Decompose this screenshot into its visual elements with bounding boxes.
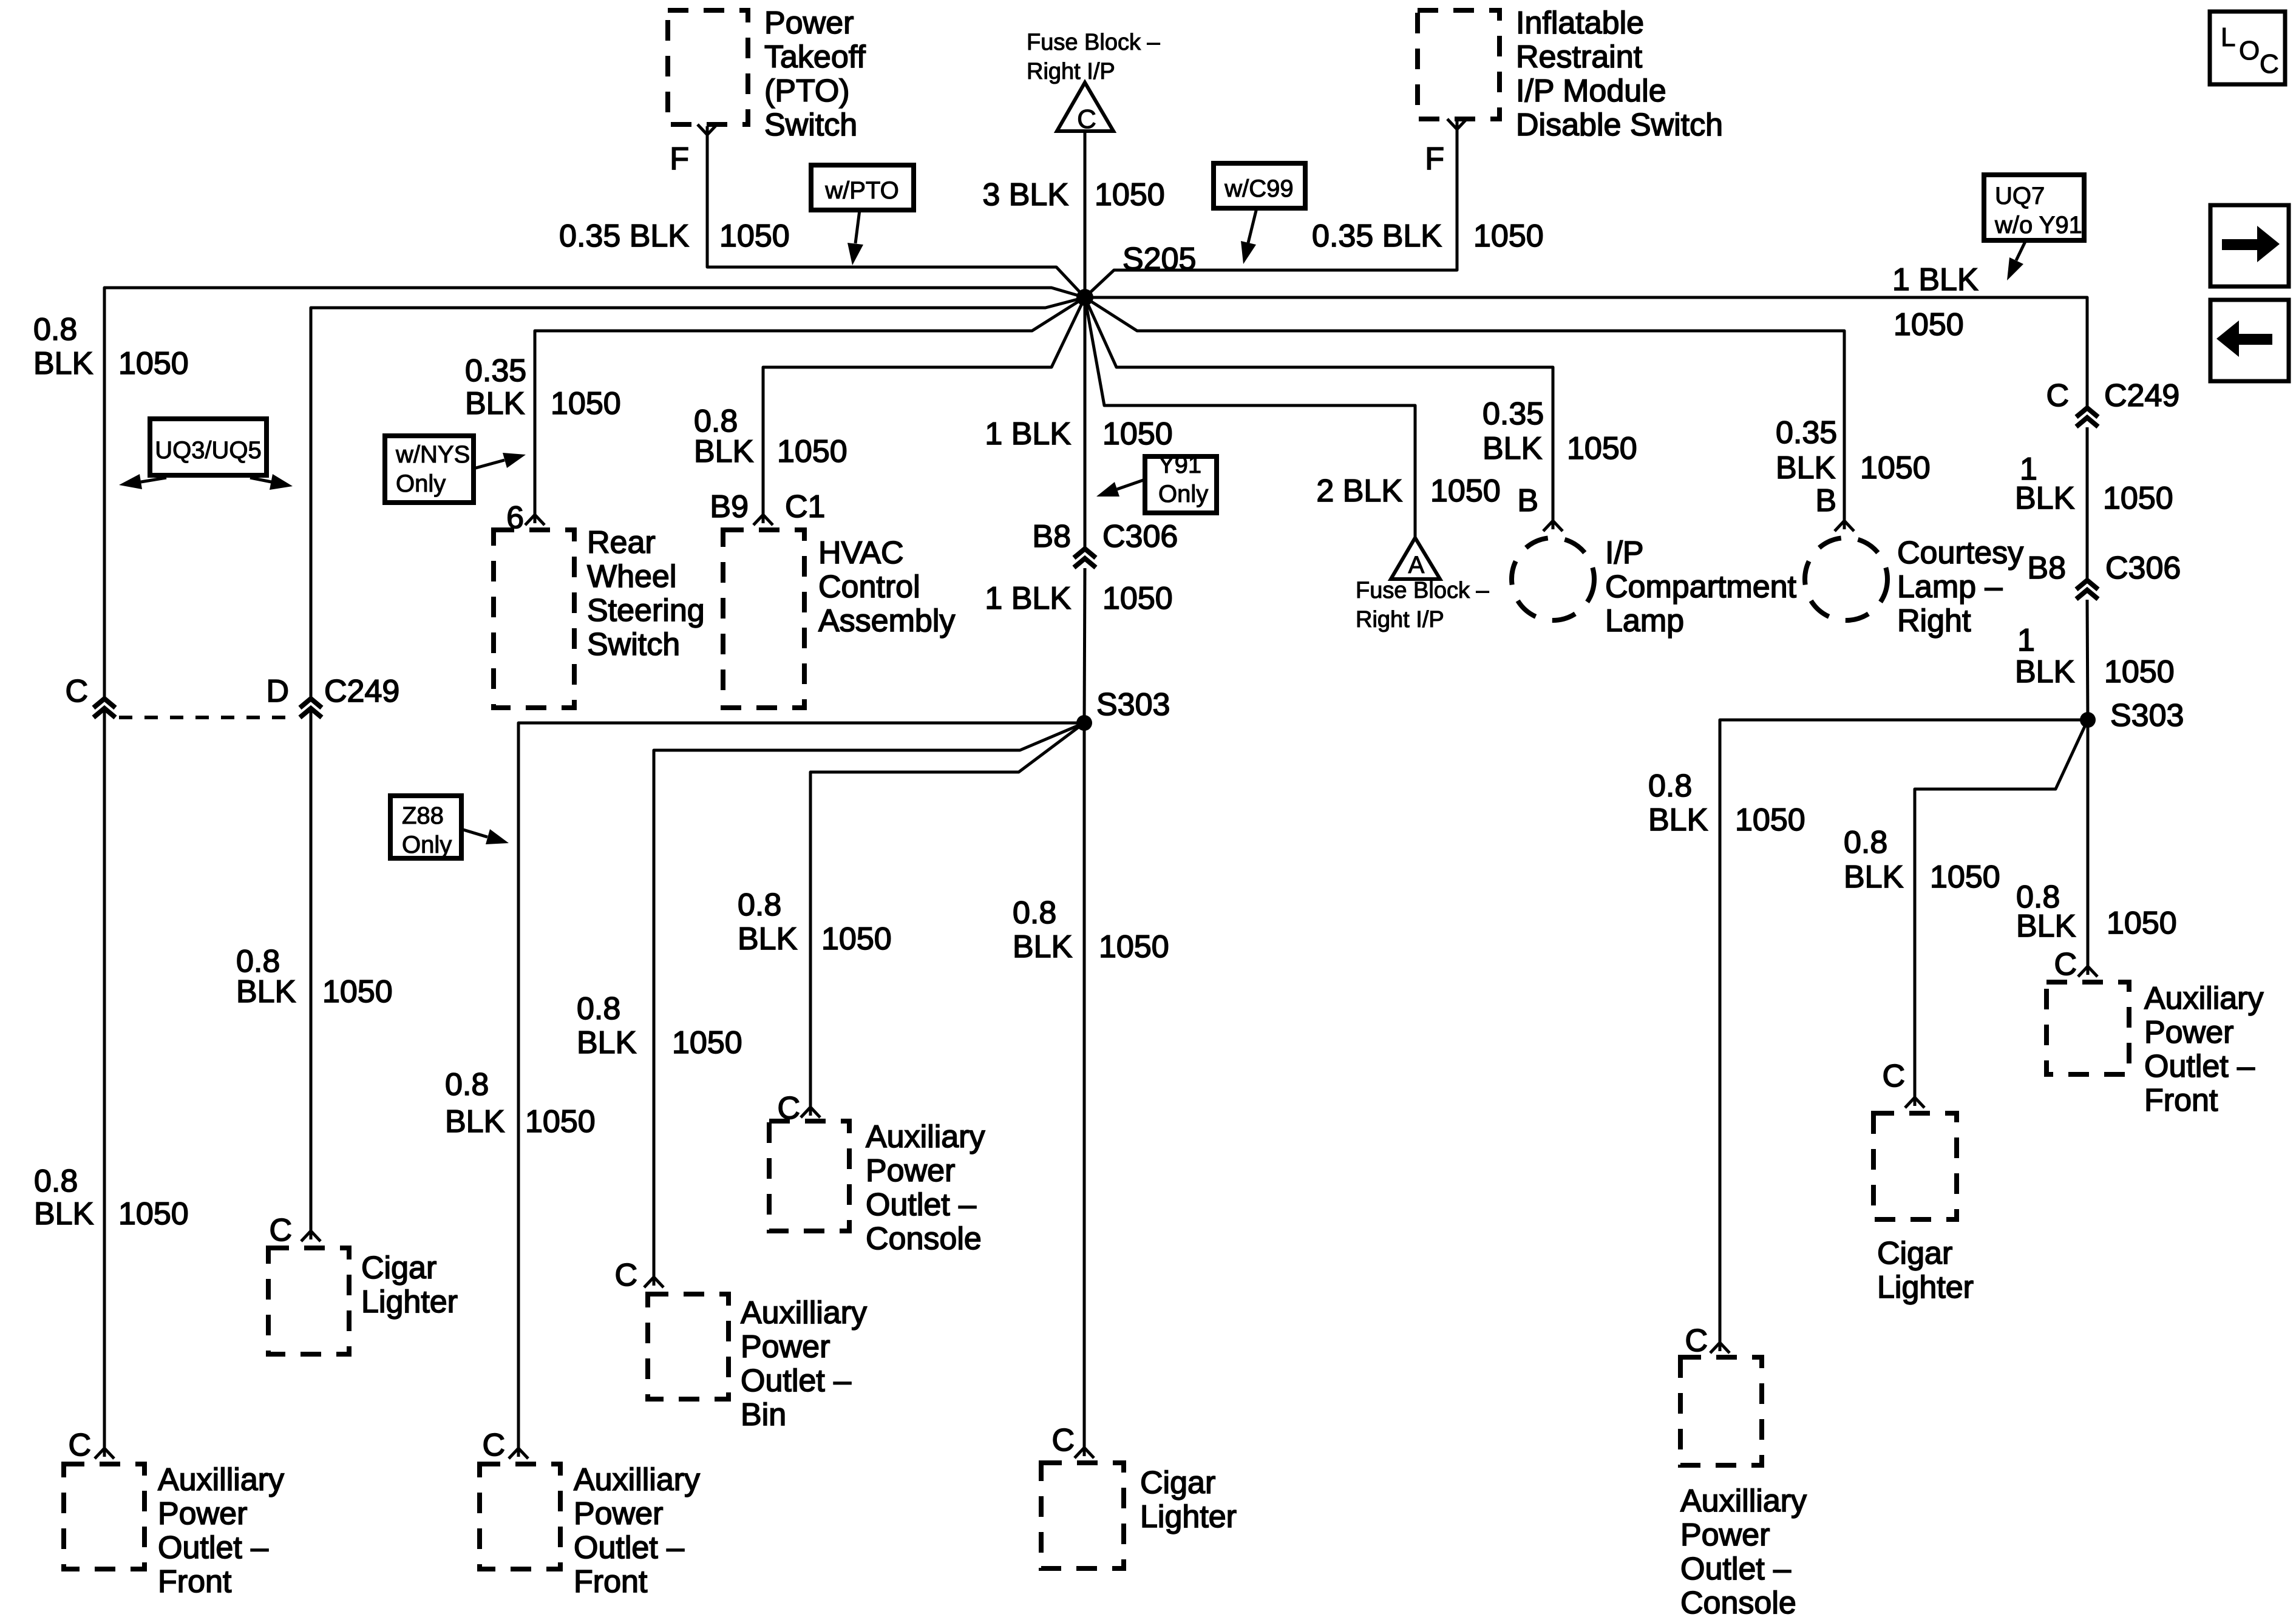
svg-text:Console: Console xyxy=(866,1221,982,1256)
legend back arrow box xyxy=(2210,300,2289,381)
svg-text:BLK: BLK xyxy=(1844,859,1904,895)
svg-text:UQ7: UQ7 xyxy=(1995,183,2045,209)
svg-text:1050: 1050 xyxy=(1095,177,1165,212)
svg-text:1050: 1050 xyxy=(672,1025,742,1060)
svg-text:Right I/P: Right I/P xyxy=(1027,59,1115,84)
svg-text:0.8: 0.8 xyxy=(445,1067,489,1102)
svg-text:Auxiliary: Auxiliary xyxy=(866,1119,985,1154)
svg-text:C: C xyxy=(2046,378,2069,413)
svg-text:Auxilliary: Auxilliary xyxy=(574,1462,700,1497)
connector pin C at auxiliary outlet bin xyxy=(644,1277,664,1287)
svg-text:Lighter: Lighter xyxy=(1140,1499,1237,1534)
component Auxilliary Power Outlet - Bin xyxy=(648,1294,729,1399)
component Auxiliary Power Outlet - Console (center) xyxy=(769,1121,849,1231)
wire 0.8 BLK 1050 S303 down to cigar lighter (center) xyxy=(1083,723,1086,1448)
svg-text:Console: Console xyxy=(1680,1585,1796,1617)
svg-text:0.8: 0.8 xyxy=(1013,895,1056,931)
svg-text:0.35: 0.35 xyxy=(465,353,526,388)
svg-text:Switch: Switch xyxy=(764,107,857,143)
svg-text:1050: 1050 xyxy=(551,386,621,421)
svg-text:Fuse Block –: Fuse Block – xyxy=(1356,578,1490,603)
svg-text:C249: C249 xyxy=(324,674,399,709)
svg-text:Front: Front xyxy=(158,1564,232,1599)
component Cigar Lighter (center) xyxy=(1041,1463,1124,1568)
svg-text:Y91: Y91 xyxy=(1158,452,1201,478)
svg-text:BLK: BLK xyxy=(1648,802,1708,838)
option tag w/NYS Only xyxy=(385,436,474,503)
svg-text:1050: 1050 xyxy=(525,1104,596,1139)
splice S303 (right) xyxy=(2080,712,2096,728)
svg-text:w/PTO: w/PTO xyxy=(824,177,899,204)
svg-text:B: B xyxy=(1517,483,1538,518)
connector pin C at cigar lighter (center) xyxy=(1075,1448,1094,1458)
connector pin 6 at rear wheel steering switch xyxy=(525,515,545,525)
option tag UQ3/UQ5 xyxy=(150,419,267,475)
svg-text:0.8: 0.8 xyxy=(738,887,781,923)
connector pins B9 C1 at HVAC control assembly xyxy=(753,515,773,525)
svg-text:S303: S303 xyxy=(2110,698,2184,733)
svg-text:1050: 1050 xyxy=(2107,906,2177,941)
connector pin B at courtesy lamp right xyxy=(1835,521,1854,531)
wire 0.8 BLK 1050 S303-right to auxiliary outlet front (right) xyxy=(2087,720,2090,966)
svg-text:Cigar: Cigar xyxy=(1140,1465,1215,1500)
svg-text:Front: Front xyxy=(2144,1083,2218,1118)
option tag UQ7 w/o Y91 xyxy=(1984,175,2084,240)
svg-text:Front: Front xyxy=(574,1564,648,1599)
wire 2 BLK 1050 S205 to fuse block A xyxy=(1085,297,1415,538)
svg-text:2 BLK: 2 BLK xyxy=(1316,473,1402,509)
connector pin C at auxiliary outlet console (center) xyxy=(801,1107,820,1117)
connector pin C at auxiliary outlet front (second) xyxy=(509,1448,528,1459)
svg-text:Fuse Block –: Fuse Block – xyxy=(1027,30,1161,55)
svg-text:BLK: BLK xyxy=(738,921,798,957)
svg-text:C1: C1 xyxy=(785,489,825,524)
svg-text:Right: Right xyxy=(1897,603,1971,639)
svg-text:1050: 1050 xyxy=(1860,450,1931,486)
svg-text:Disable Switch: Disable Switch xyxy=(1516,107,1723,143)
legend LOC box xyxy=(2210,12,2285,84)
svg-text:0.35 BLK: 0.35 BLK xyxy=(559,219,689,254)
connector C306 pin B8 (right) xyxy=(2076,580,2098,599)
svg-text:C: C xyxy=(2054,947,2077,982)
svg-text:1050: 1050 xyxy=(322,974,393,1009)
wire 0.35 BLK 1050 from PTO switch to S205 xyxy=(707,132,1085,297)
svg-text:0.8: 0.8 xyxy=(34,1164,78,1199)
svg-text:1050: 1050 xyxy=(1930,859,2000,895)
svg-text:BLK: BLK xyxy=(2016,909,2076,944)
connector pin F at disable switch xyxy=(1447,119,1467,129)
svg-text:Restraint: Restraint xyxy=(1516,39,1643,75)
svg-text:I/P Module: I/P Module xyxy=(1516,73,1666,109)
svg-text:Courtesy: Courtesy xyxy=(1897,535,2023,571)
svg-text:C: C xyxy=(65,674,88,709)
svg-text:Auxilliary: Auxilliary xyxy=(741,1295,867,1331)
svg-text:1050: 1050 xyxy=(719,219,790,254)
svg-text:C306: C306 xyxy=(1102,519,1178,554)
svg-text:Outlet –: Outlet – xyxy=(741,1363,851,1398)
svg-text:BLK: BLK xyxy=(2015,654,2075,690)
svg-text:B9: B9 xyxy=(710,489,749,524)
wire 1 BLK 1050 from C306 down to S303 (left) xyxy=(1084,568,1085,723)
svg-text:Outlet –: Outlet – xyxy=(2144,1049,2255,1084)
svg-text:BLK: BLK xyxy=(694,434,754,469)
svg-text:C: C xyxy=(68,1428,91,1463)
svg-text:C: C xyxy=(1077,104,1096,134)
svg-text:F: F xyxy=(670,141,689,177)
component Rear Wheel Steering Switch xyxy=(494,530,574,708)
svg-text:Cigar: Cigar xyxy=(361,1250,436,1286)
svg-text:F: F xyxy=(1425,141,1444,177)
svg-text:Outlet –: Outlet – xyxy=(574,1530,684,1565)
svg-text:0.8: 0.8 xyxy=(33,312,77,347)
svg-text:1050: 1050 xyxy=(2104,654,2175,690)
connector C249 pin D (left) xyxy=(300,699,322,717)
option tag Y91 Only xyxy=(1145,456,1217,513)
component Auxilliary Power Outlet - Console (right) xyxy=(1680,1357,1762,1465)
svg-text:Outlet –: Outlet – xyxy=(866,1187,976,1222)
svg-text:C: C xyxy=(1051,1423,1075,1458)
svg-text:1050: 1050 xyxy=(1430,473,1501,509)
svg-text:B8: B8 xyxy=(2027,551,2066,586)
svg-text:C: C xyxy=(2260,49,2279,79)
wire 0.8 BLK 1050 S303-left to auxiliary outlet front (second) xyxy=(518,723,1084,1448)
wire 0.8 BLK 1050 S303-right to cigar lighter (right) xyxy=(1915,720,2088,1097)
svg-text:Auxiliary: Auxiliary xyxy=(2144,981,2264,1016)
svg-text:C: C xyxy=(1685,1323,1708,1358)
svg-text:O: O xyxy=(2239,36,2260,66)
svg-text:B8: B8 xyxy=(1032,519,1071,554)
svg-text:C: C xyxy=(482,1428,505,1463)
wire 0.8 BLK 1050 S303-right to auxiliary outlet console (right) xyxy=(1720,720,2088,1343)
legend forward arrow box xyxy=(2210,205,2289,286)
svg-text:1050: 1050 xyxy=(1102,416,1173,452)
wire 0.8 BLK 1050 S205 to left column (C of C249) xyxy=(104,288,1085,698)
svg-text:BLK: BLK xyxy=(33,346,93,381)
svg-text:Bin: Bin xyxy=(741,1397,786,1432)
svg-text:C: C xyxy=(614,1258,637,1293)
svg-text:Power: Power xyxy=(1680,1517,1770,1553)
svg-text:w/o Y91: w/o Y91 xyxy=(1994,212,2082,239)
svg-text:Z88: Z88 xyxy=(402,802,444,829)
svg-text:Wheel: Wheel xyxy=(587,559,676,594)
svg-text:3 BLK: 3 BLK xyxy=(982,177,1068,212)
fuse block triangle C xyxy=(1057,83,1113,131)
svg-text:C249: C249 xyxy=(2104,378,2179,413)
wire 0.35 BLK 1050 from disable switch to S205 xyxy=(1085,127,1457,297)
svg-text:Auxilliary: Auxilliary xyxy=(1680,1483,1807,1519)
svg-text:Power: Power xyxy=(2144,1015,2233,1050)
svg-text:Assembly: Assembly xyxy=(818,603,955,639)
splice S205 xyxy=(1076,289,1093,306)
svg-text:B: B xyxy=(1815,483,1836,518)
svg-text:Power: Power xyxy=(574,1496,663,1531)
component Auxilliary Power Outlet - Front (second) xyxy=(480,1464,560,1569)
svg-text:1050: 1050 xyxy=(821,921,892,957)
connector pin B at I/P compartment lamp xyxy=(1543,521,1563,531)
svg-text:Inflatable: Inflatable xyxy=(1516,5,1644,41)
connector C249 pin C (right) xyxy=(2076,408,2098,427)
svg-text:Power: Power xyxy=(741,1329,830,1364)
svg-text:w/C99: w/C99 xyxy=(1224,175,1293,202)
svg-text:D: D xyxy=(266,674,289,709)
svg-text:Auxilliary: Auxilliary xyxy=(158,1462,284,1497)
splice S303 (left) xyxy=(1076,715,1092,731)
svg-text:Power: Power xyxy=(158,1496,247,1531)
svg-text:Right I/P: Right I/P xyxy=(1356,607,1444,632)
svg-text:(PTO): (PTO) xyxy=(764,73,850,109)
svg-text:Lamp: Lamp xyxy=(1605,603,1684,639)
svg-text:C: C xyxy=(269,1213,292,1248)
svg-text:Only: Only xyxy=(396,470,446,497)
svg-text:Outlet –: Outlet – xyxy=(1680,1551,1791,1587)
component Power Takeoff (PTO) Switch xyxy=(668,10,748,124)
fuse block triangle A xyxy=(1391,538,1440,579)
connector pin C at auxiliary power outlet front (far left) xyxy=(95,1448,114,1459)
dashed link between C249 pins C and D xyxy=(119,716,295,719)
option tag Z88 Only xyxy=(390,796,461,858)
svg-text:BLK: BLK xyxy=(445,1104,505,1139)
svg-text:0.35: 0.35 xyxy=(1483,396,1544,432)
svg-text:A: A xyxy=(1408,552,1425,578)
svg-text:1050: 1050 xyxy=(777,434,847,469)
svg-text:1050: 1050 xyxy=(1102,581,1173,616)
component Inflatable Restraint I/P Module Disable Switch xyxy=(1418,10,1500,119)
svg-text:1 BLK: 1 BLK xyxy=(985,581,1071,616)
svg-text:1050: 1050 xyxy=(2103,481,2173,516)
option tag w/PTO xyxy=(811,165,914,210)
svg-text:w/NYS: w/NYS xyxy=(395,441,470,468)
component Auxiliary Power Outlet - Front (right) xyxy=(2046,982,2129,1074)
svg-text:BLK: BLK xyxy=(2015,481,2075,516)
connector C249 pin C (left) xyxy=(93,699,115,717)
connector pin C at auxiliary outlet console (right) xyxy=(1710,1343,1730,1353)
svg-text:Power: Power xyxy=(764,5,854,41)
svg-text:0.8: 0.8 xyxy=(1648,768,1692,804)
component Courtesy Lamp - Right xyxy=(1805,538,1887,620)
component I/P Compartment Lamp xyxy=(1512,538,1594,620)
component Cigar Lighter (left) xyxy=(268,1248,349,1354)
svg-text:S205: S205 xyxy=(1123,242,1196,277)
wire 0.8 BLK 1050 S205 to HVAC control assembly xyxy=(763,297,1085,515)
option tag w/C99 xyxy=(1214,163,1305,208)
component Cigar Lighter (right) xyxy=(1873,1113,1957,1219)
wire below C249 pin D to cigar lighter (left) xyxy=(310,708,313,1231)
wire 0.8 BLK 1050 S303-left to auxiliary outlet console (center) xyxy=(810,723,1084,1107)
svg-text:1050: 1050 xyxy=(118,346,189,381)
svg-text:UQ3/UQ5: UQ3/UQ5 xyxy=(155,437,262,464)
svg-text:BLK: BLK xyxy=(1776,450,1836,486)
connector pin C at cigar lighter (left) xyxy=(301,1231,321,1241)
svg-text:BLK: BLK xyxy=(236,974,296,1009)
svg-text:C: C xyxy=(1882,1059,1905,1094)
connector C306 pin B8 (center) xyxy=(1074,549,1096,568)
svg-text:1: 1 xyxy=(2017,623,2035,658)
svg-text:1 BLK: 1 BLK xyxy=(985,416,1071,452)
svg-text:L: L xyxy=(2221,22,2235,52)
wire 0.35 BLK 1050 S205 to courtesy lamp right xyxy=(1085,297,1844,521)
connector pin C at cigar lighter (right) xyxy=(1905,1097,1924,1108)
wire 0.8 BLK 1050 S303-left to auxiliary outlet bin xyxy=(654,723,1084,1277)
svg-text:1050: 1050 xyxy=(1099,929,1169,964)
svg-text:BLK: BLK xyxy=(577,1025,637,1060)
svg-text:Switch: Switch xyxy=(587,627,680,662)
svg-text:0.35 BLK: 0.35 BLK xyxy=(1312,219,1442,254)
connector pin C at auxiliary outlet front (right) xyxy=(2078,966,2097,977)
svg-text:Lighter: Lighter xyxy=(361,1284,458,1320)
svg-text:1050: 1050 xyxy=(1473,219,1544,254)
svg-text:Cigar: Cigar xyxy=(1877,1236,1952,1271)
svg-text:Outlet –: Outlet – xyxy=(158,1530,268,1565)
wire 1 BLK 1050 from C306 to S303 (right) xyxy=(2087,600,2088,720)
svg-text:Lamp –: Lamp – xyxy=(1897,569,2003,605)
component HVAC Control Assembly xyxy=(723,530,804,708)
svg-text:BLK: BLK xyxy=(1013,929,1073,964)
svg-text:1 BLK: 1 BLK xyxy=(1892,262,1978,297)
wire 0.35 BLK 1050 S205 to rear wheel steering switch xyxy=(535,297,1085,515)
connector pin F at PTO switch xyxy=(698,124,717,135)
wire 0.8 BLK 1050 below C249 pin C to auxiliary outlet front xyxy=(103,708,106,1448)
svg-text:Control: Control xyxy=(818,569,920,605)
svg-text:Only: Only xyxy=(1158,481,1208,507)
wire 3 BLK 1050 from fuse block C to S205 xyxy=(1084,131,1087,297)
component Auxilliary Power Outlet - Front (far left) xyxy=(64,1464,144,1569)
wire 1 BLK 1050 from C249 to C306 (right) xyxy=(2086,427,2089,580)
svg-text:1050: 1050 xyxy=(1567,431,1637,466)
wire 1 BLK 1050 S205 down to C306 pin B8 xyxy=(1084,131,1087,549)
svg-text:0.8: 0.8 xyxy=(1844,825,1887,860)
svg-text:C306: C306 xyxy=(2105,551,2181,586)
svg-text:0.35: 0.35 xyxy=(1776,415,1837,450)
svg-text:Only: Only xyxy=(402,832,452,858)
svg-text:1050: 1050 xyxy=(118,1196,189,1232)
svg-text:I/P: I/P xyxy=(1605,535,1644,571)
wire 0.8 BLK 1050 S205 to second column (D of C249) xyxy=(311,297,1085,698)
svg-text:BLK: BLK xyxy=(1483,431,1543,466)
svg-text:0.8: 0.8 xyxy=(577,991,620,1026)
svg-text:Lighter: Lighter xyxy=(1877,1270,1974,1305)
svg-text:1050: 1050 xyxy=(1735,802,1805,838)
wire 1 BLK 1050 S205 to C249 pin C (right) xyxy=(1085,297,2087,408)
svg-text:S303: S303 xyxy=(1096,687,1170,722)
svg-text:BLK: BLK xyxy=(465,386,525,421)
svg-text:BLK: BLK xyxy=(34,1196,94,1232)
svg-text:HVAC: HVAC xyxy=(818,535,904,571)
svg-text:Steering: Steering xyxy=(587,593,705,628)
wire 0.35 BLK 1050 S205 to I/P compartment lamp xyxy=(1085,297,1553,521)
svg-text:Rear: Rear xyxy=(587,525,656,560)
svg-text:Power: Power xyxy=(866,1153,955,1188)
svg-text:Takeoff: Takeoff xyxy=(764,39,866,75)
svg-text:Compartment: Compartment xyxy=(1605,569,1797,605)
svg-text:1050: 1050 xyxy=(1894,307,1964,342)
